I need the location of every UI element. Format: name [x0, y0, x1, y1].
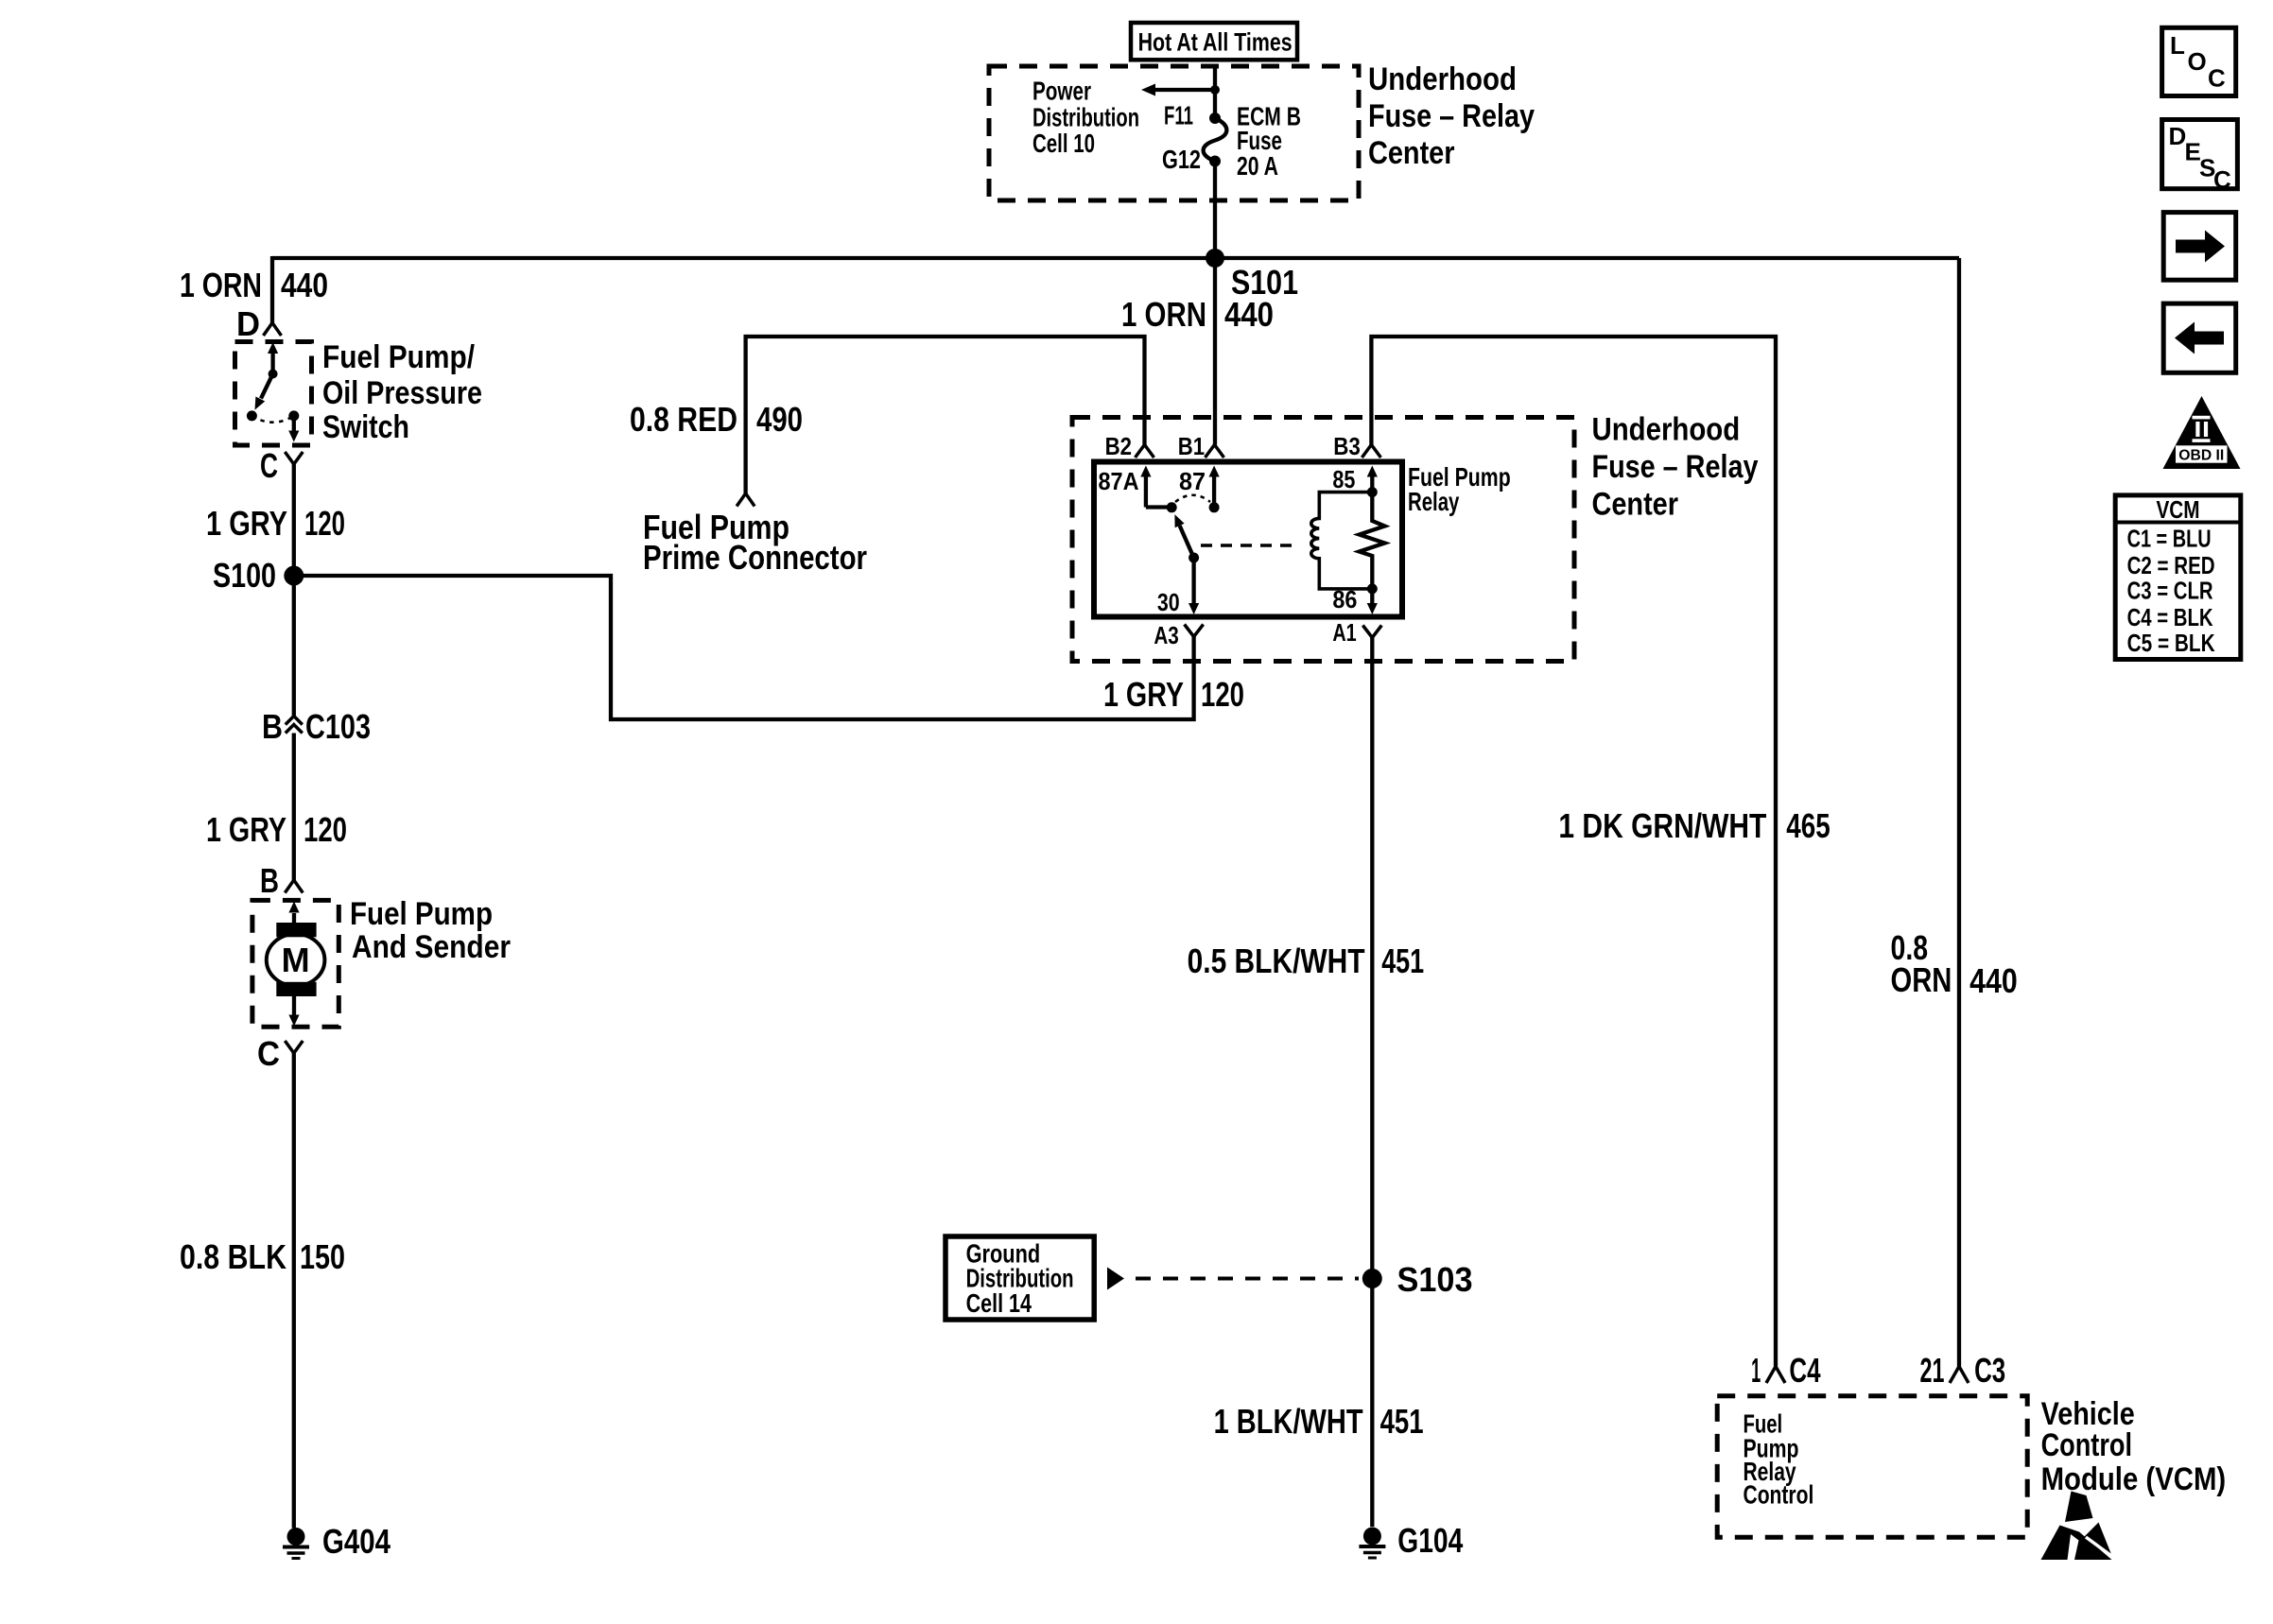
- svg-text:1 ORN: 1 ORN: [180, 266, 262, 304]
- svg-text:Relay: Relay: [1408, 487, 1460, 516]
- svg-text:S100: S100: [213, 556, 276, 595]
- svg-text:87: 87: [1179, 467, 1206, 495]
- svg-text:Fuel Pump: Fuel Pump: [350, 896, 493, 932]
- svg-text:C3: C3: [1974, 1351, 2005, 1390]
- svg-text:20 A: 20 A: [1237, 151, 1278, 181]
- svg-text:A3: A3: [1154, 621, 1178, 649]
- svg-text:OBD II: OBD II: [2178, 448, 2224, 464]
- svg-text:0.8 BLK: 0.8 BLK: [180, 1237, 286, 1276]
- svg-text:G104: G104: [1397, 1521, 1463, 1560]
- svg-text:F11: F11: [1164, 101, 1193, 130]
- svg-text:L: L: [2170, 31, 2185, 60]
- svg-text:465: 465: [1786, 806, 1830, 845]
- svg-text:A1: A1: [1332, 618, 1356, 647]
- svg-text:451: 451: [1381, 942, 1424, 980]
- svg-text:C: C: [2208, 64, 2226, 93]
- svg-text:And Sender: And Sender: [352, 929, 511, 965]
- svg-text:Power: Power: [1032, 77, 1091, 106]
- svg-text:120: 120: [1201, 675, 1244, 714]
- svg-text:21: 21: [1920, 1351, 1945, 1390]
- svg-text:C4 = BLK: C4 = BLK: [2127, 603, 2213, 631]
- svg-text:G12: G12: [1162, 145, 1201, 174]
- svg-text:B: B: [260, 861, 279, 900]
- svg-text:ORN: ORN: [1891, 960, 1952, 999]
- svg-text:D: D: [236, 304, 260, 343]
- svg-text:B1: B1: [1178, 432, 1205, 460]
- svg-text:G404: G404: [322, 1522, 390, 1561]
- svg-text:C: C: [260, 446, 278, 485]
- svg-text:Hot At All Times: Hot At All Times: [1138, 27, 1293, 56]
- svg-text:440: 440: [1224, 295, 1274, 334]
- svg-text:Prime Connector: Prime Connector: [643, 538, 867, 577]
- svg-text:Fuse – Relay: Fuse – Relay: [1592, 449, 1759, 485]
- svg-text:B: B: [262, 707, 283, 746]
- svg-text:0.8 RED: 0.8 RED: [630, 400, 737, 439]
- svg-text:1 GRY: 1 GRY: [206, 504, 287, 543]
- svg-text:Distribution: Distribution: [1032, 103, 1139, 132]
- svg-text:Fuse – Relay: Fuse – Relay: [1368, 98, 1535, 134]
- svg-text:Module (VCM): Module (VCM): [2041, 1461, 2227, 1497]
- svg-text:C5 = BLK: C5 = BLK: [2127, 629, 2215, 657]
- svg-text:C: C: [2213, 165, 2231, 194]
- svg-text:C4: C4: [1789, 1351, 1820, 1390]
- svg-text:1 DK GRN/WHT: 1 DK GRN/WHT: [1558, 806, 1766, 845]
- svg-text:C1 = BLU: C1 = BLU: [2127, 524, 2212, 552]
- svg-text:B3: B3: [1333, 432, 1361, 460]
- svg-text:B2: B2: [1105, 432, 1132, 460]
- svg-text:120: 120: [304, 810, 347, 849]
- svg-text:Fuel Pump/: Fuel Pump/: [322, 339, 475, 375]
- svg-text:Underhood: Underhood: [1368, 61, 1517, 97]
- svg-text:87A: 87A: [1099, 467, 1139, 495]
- svg-text:1 GRY: 1 GRY: [1103, 675, 1184, 714]
- svg-text:0.5 BLK/WHT: 0.5 BLK/WHT: [1188, 942, 1365, 980]
- svg-text:Center: Center: [1592, 487, 1679, 523]
- svg-text:C103: C103: [305, 707, 371, 746]
- svg-text:Center: Center: [1368, 135, 1455, 171]
- svg-text:490: 490: [756, 400, 803, 439]
- svg-text:Cell 10: Cell 10: [1032, 129, 1095, 158]
- svg-text:C: C: [257, 1034, 280, 1073]
- svg-text:1 BLK/WHT: 1 BLK/WHT: [1214, 1402, 1363, 1441]
- svg-text:Control: Control: [1744, 1479, 1814, 1509]
- svg-text:150: 150: [300, 1237, 345, 1276]
- svg-text:D: D: [2169, 122, 2187, 150]
- svg-text:Cell 14: Cell 14: [966, 1288, 1032, 1318]
- svg-text:85: 85: [1332, 465, 1355, 493]
- svg-text:S103: S103: [1397, 1260, 1473, 1299]
- svg-text:1: 1: [1751, 1351, 1761, 1390]
- svg-text:440: 440: [281, 266, 328, 304]
- svg-text:30: 30: [1157, 588, 1180, 616]
- svg-text:M: M: [282, 941, 310, 979]
- svg-text:C2 = RED: C2 = RED: [2127, 551, 2215, 579]
- svg-text:86: 86: [1332, 585, 1357, 613]
- svg-text:Oil Pressure: Oil Pressure: [322, 375, 482, 411]
- svg-text:Control: Control: [2041, 1427, 2132, 1463]
- svg-text:Switch: Switch: [322, 409, 409, 445]
- svg-text:O: O: [2188, 47, 2207, 76]
- svg-text:C3 = CLR: C3 = CLR: [2127, 577, 2213, 605]
- svg-text:Underhood: Underhood: [1592, 412, 1741, 448]
- svg-text:1 GRY: 1 GRY: [206, 810, 286, 849]
- svg-text:1 ORN: 1 ORN: [1121, 295, 1206, 334]
- svg-text:440: 440: [1969, 961, 2018, 1000]
- svg-text:120: 120: [304, 504, 345, 543]
- svg-text:VCM: VCM: [2157, 495, 2200, 524]
- svg-text:451: 451: [1380, 1402, 1424, 1441]
